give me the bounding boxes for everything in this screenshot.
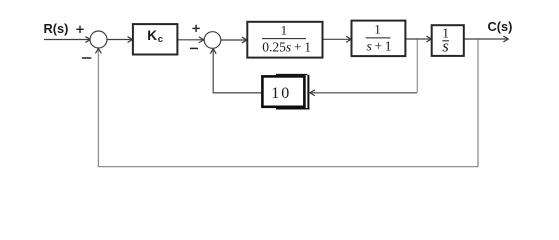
svg-text:1: 1 [281,23,288,38]
svg-text:10: 10 [271,85,291,102]
svg-text:0.25s + 1: 0.25s + 1 [262,39,311,54]
svg-text:C(s): C(s) [488,19,513,34]
svg-text:c: c [158,34,163,45]
svg-text:R(s): R(s) [44,21,69,36]
svg-text:s: s [442,36,448,55]
svg-text:1: 1 [374,21,381,36]
svg-text:K: K [147,28,157,43]
svg-text:s + 1: s + 1 [367,39,392,54]
